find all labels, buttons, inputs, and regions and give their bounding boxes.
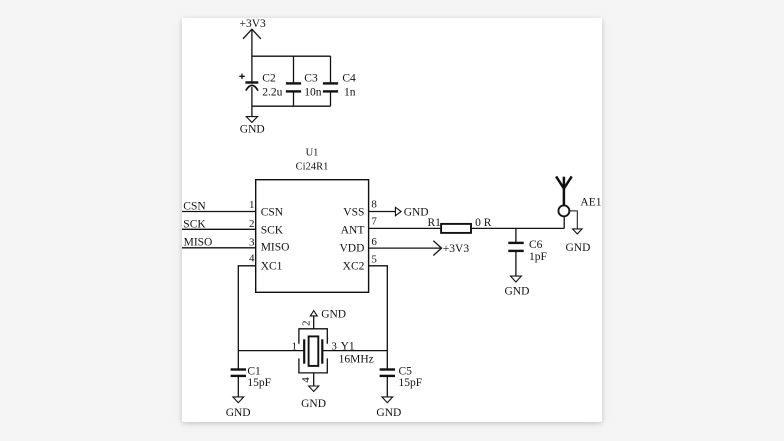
svg-text:XC1: XC1 xyxy=(261,261,283,273)
svg-text:15pF: 15pF xyxy=(247,377,271,389)
svg-text:+3V3: +3V3 xyxy=(443,243,470,255)
svg-text:4: 4 xyxy=(249,253,255,265)
svg-text:GND: GND xyxy=(505,286,530,298)
svg-text:MISO: MISO xyxy=(261,242,290,254)
svg-text:XC2: XC2 xyxy=(343,261,365,273)
svg-text:1: 1 xyxy=(249,199,255,211)
svg-text:R1: R1 xyxy=(428,217,442,229)
svg-text:Ci24R1: Ci24R1 xyxy=(296,162,329,173)
svg-text:SCK: SCK xyxy=(261,224,284,236)
svg-text:C6: C6 xyxy=(529,239,543,251)
svg-text:1: 1 xyxy=(292,340,298,352)
svg-text:7: 7 xyxy=(371,216,377,228)
svg-text:2.2u: 2.2u xyxy=(262,86,282,98)
svg-text:6: 6 xyxy=(371,236,377,248)
svg-text:GND: GND xyxy=(240,124,265,136)
svg-text:C1: C1 xyxy=(247,366,261,378)
svg-text:GND: GND xyxy=(321,308,346,320)
svg-text:15pF: 15pF xyxy=(399,377,423,389)
svg-text:GND: GND xyxy=(226,407,251,419)
svg-text:2: 2 xyxy=(249,218,255,230)
svg-text:3: 3 xyxy=(249,236,255,248)
svg-text:U1: U1 xyxy=(306,147,319,158)
svg-text:MISO: MISO xyxy=(184,237,213,249)
svg-text:GND: GND xyxy=(404,206,429,218)
svg-text:GND: GND xyxy=(566,242,591,254)
svg-text:ANT: ANT xyxy=(341,224,365,236)
svg-text:VDD: VDD xyxy=(339,243,364,255)
svg-text:C5: C5 xyxy=(399,366,413,378)
svg-text:C4: C4 xyxy=(342,72,356,84)
svg-text:GND: GND xyxy=(301,398,326,410)
svg-text:GND: GND xyxy=(376,407,401,419)
svg-text:5: 5 xyxy=(371,254,377,266)
svg-text:3: 3 xyxy=(331,340,337,352)
svg-text:4: 4 xyxy=(300,377,312,383)
svg-text:1pF: 1pF xyxy=(529,251,547,263)
svg-text:2: 2 xyxy=(301,321,313,327)
svg-text:C2: C2 xyxy=(262,72,276,84)
svg-text:VSS: VSS xyxy=(343,206,364,218)
svg-text:AE1: AE1 xyxy=(580,196,601,208)
svg-text:CSN: CSN xyxy=(261,206,284,218)
svg-text:SCK: SCK xyxy=(183,219,206,231)
svg-text:16MHz: 16MHz xyxy=(339,353,374,365)
svg-text:C3: C3 xyxy=(304,72,318,84)
svg-text:0 R: 0 R xyxy=(475,217,492,229)
svg-text:1n: 1n xyxy=(344,86,356,98)
svg-text:CSN: CSN xyxy=(183,200,206,212)
svg-text:+3V3: +3V3 xyxy=(240,18,267,30)
svg-text:10n: 10n xyxy=(304,86,322,98)
svg-text:8: 8 xyxy=(371,198,377,210)
svg-text:Y1: Y1 xyxy=(341,340,355,352)
